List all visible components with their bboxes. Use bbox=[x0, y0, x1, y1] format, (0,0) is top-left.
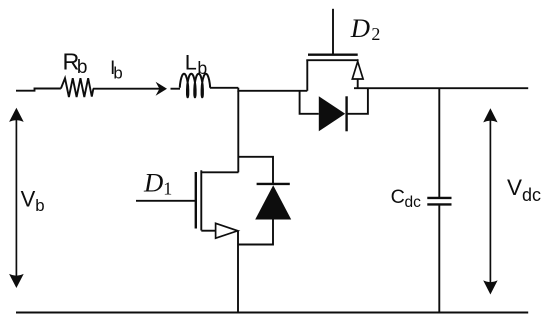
svg-text:Rb: Rb bbox=[63, 48, 88, 78]
wire: D1 body-diode loop bottom bbox=[238, 220, 273, 245]
transistor D1 gate lead bbox=[136, 200, 196, 202]
wire: D2 body-diode loop left drop bbox=[300, 91, 319, 114]
arrow Vb (input voltage, double-headed) bbox=[9, 108, 24, 288]
capacitor Cdc top plate bbox=[427, 197, 451, 199]
svg-text:D2: D2 bbox=[350, 13, 381, 44]
inductor Lb bbox=[180, 74, 210, 98]
wire: bottom rail bbox=[16, 312, 528, 314]
arrow Vdc (output voltage, double-headed) bbox=[483, 108, 497, 294]
diode of D1 cathode bar bbox=[257, 183, 290, 185]
svg-text:Lb: Lb bbox=[185, 50, 208, 78]
transistor D2 gate bar bbox=[308, 54, 358, 56]
wire: D2 body-diode loop right rise bbox=[347, 88, 368, 114]
transistor D2 source arrow bbox=[352, 62, 363, 80]
svg-text:Cdc: Cdc bbox=[391, 186, 422, 211]
transistor D1 bottom leg bbox=[201, 230, 215, 232]
capacitor Cdc bottom lead bbox=[438, 204, 440, 312]
transistor D2 left leg (drain) bbox=[306, 60, 308, 91]
transistor D1 top leg (drain) bbox=[201, 171, 238, 173]
svg-text:Vb: Vb bbox=[21, 187, 45, 215]
wire: top output rail bbox=[354, 87, 528, 89]
svg-text:Vdc: Vdc bbox=[507, 175, 541, 205]
current arrow Ib bbox=[156, 82, 167, 96]
wire: D1 body-diode loop top bbox=[238, 157, 273, 184]
wire: arrow to inductor bbox=[171, 88, 181, 90]
transistor D2 channel bar bbox=[306, 59, 358, 61]
svg-text:Ib: Ib bbox=[110, 58, 123, 82]
capacitor Cdc top lead bbox=[438, 88, 440, 198]
wire: resistor to current arrow bbox=[93, 88, 160, 90]
transistor D1 channel bar bbox=[200, 170, 202, 230]
transistor D2 gate lead bbox=[332, 9, 334, 54]
svg-text:D1: D1 bbox=[143, 167, 172, 198]
wire: node down to D1 drain bbox=[237, 91, 239, 173]
transistor D1 source arrow bbox=[216, 223, 238, 238]
resistor Rb bbox=[61, 78, 94, 97]
diode of D2 (body diode) bbox=[319, 96, 345, 131]
node: switching junction bbox=[238, 88, 307, 91]
diode of D1 (body diode) bbox=[255, 185, 291, 219]
wire: inductor to node bbox=[210, 87, 238, 89]
transistor D2 source stem bbox=[357, 79, 359, 88]
capacitor Cdc bottom plate bbox=[427, 203, 451, 205]
wire: left input terminal (top) bbox=[16, 89, 61, 91]
wire: D1 source down to bottom rail bbox=[237, 231, 239, 313]
transistor D1 gate bar bbox=[195, 172, 197, 229]
diode of D2 cathode bar bbox=[345, 96, 347, 131]
